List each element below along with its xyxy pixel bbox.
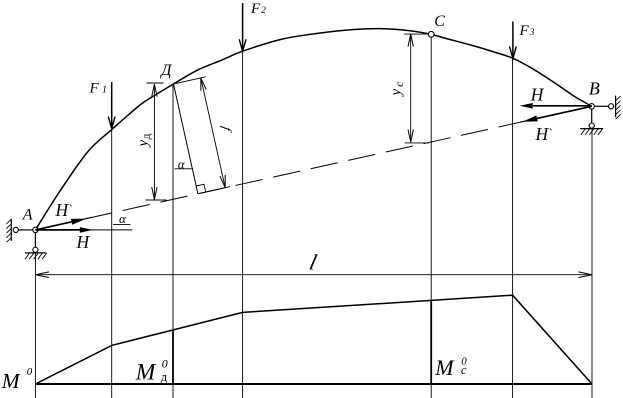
- dimension f line with arrows: [176, 77, 231, 194]
- wire vertical construction line at support A: [34, 253, 36, 398]
- svg-text:F1: F1: [89, 80, 107, 96]
- hinge C circle: [428, 31, 434, 37]
- svg-text:F2: F2: [250, 1, 266, 17]
- dimension yc line with arrows: [404, 34, 429, 143]
- svg-text:ус: ус: [389, 81, 407, 98]
- support A wall pin circle: [13, 227, 18, 232]
- support B wall with hatching: [616, 96, 621, 120]
- support B main pin circle: [589, 104, 594, 109]
- wire dashed chord line A-B: [35, 106, 591, 230]
- support B lower pin circle: [589, 123, 594, 128]
- svg-text:l: l: [307, 250, 319, 275]
- support A wall with hatching: [6, 219, 11, 243]
- force H-prime arrow at B: [520, 106, 591, 122]
- wire vertical construction line under point D: [172, 84, 174, 398]
- force H arrow at A with extension: [35, 227, 132, 233]
- svg-text:с: с: [461, 363, 467, 377]
- angle alpha mark at A: [113, 223, 131, 225]
- svg-text:M: M: [1, 369, 21, 393]
- right angle marker at foot of perpendicular: [196, 184, 206, 192]
- wire vertical construction line under F2: [242, 51, 244, 398]
- moment ordinate at D: [172, 330, 174, 384]
- support B ground with hatching: [580, 129, 603, 135]
- wire arch curve A-B: [35, 29, 591, 230]
- svg-text:0: 0: [162, 357, 168, 371]
- svg-text:H`: H`: [55, 200, 73, 220]
- moment ordinate at C: [430, 300, 432, 384]
- svg-text:A: A: [22, 206, 33, 223]
- moment diagram baseline: [35, 383, 592, 385]
- support B horizontal link: [594, 105, 608, 107]
- force F1 arrow: [108, 82, 115, 129]
- support B vertical link: [591, 109, 593, 123]
- force F3 arrow: [510, 22, 517, 59]
- angle alpha mark at D: [175, 168, 194, 170]
- svg-text:H: H: [530, 85, 545, 105]
- svg-text:B: B: [589, 79, 600, 99]
- moment diagram curve: [35, 295, 592, 384]
- svg-text:д: д: [161, 370, 168, 384]
- support A main pin circle: [33, 227, 38, 232]
- svg-text:M: M: [434, 355, 455, 380]
- support A ground with hatching: [25, 253, 47, 259]
- svg-text:f: f: [219, 126, 235, 135]
- wire vertical construction line at support B: [591, 129, 593, 398]
- svg-text:Д: Д: [159, 62, 172, 79]
- wire vertical construction line under hinge C: [430, 37, 432, 398]
- svg-text:F3: F3: [519, 23, 535, 39]
- dimension l line with arrows: [35, 272, 592, 278]
- perpendicular from D to chord: [174, 84, 198, 194]
- support B wall pin circle: [609, 104, 614, 109]
- svg-text:M: M: [135, 359, 157, 385]
- support A horizontal link: [18, 229, 33, 231]
- force F2 arrow: [239, 3, 246, 51]
- force H-prime arrow at A: [35, 217, 91, 230]
- svg-text:H: H: [76, 232, 91, 252]
- svg-text:H`: H`: [535, 124, 553, 144]
- svg-text:уд: уд: [135, 133, 153, 148]
- dimension yd line with arrows: [146, 83, 167, 200]
- support A lower pin circle: [33, 247, 38, 252]
- wire vertical construction line under F1: [111, 128, 113, 398]
- svg-text:α: α: [119, 211, 127, 226]
- wire vertical construction line under F3: [512, 59, 514, 398]
- svg-text:0: 0: [27, 366, 33, 378]
- svg-text:C: C: [434, 13, 445, 30]
- support A vertical link: [34, 233, 36, 248]
- force H arrow at B: [520, 103, 592, 109]
- svg-text:α: α: [178, 156, 186, 171]
